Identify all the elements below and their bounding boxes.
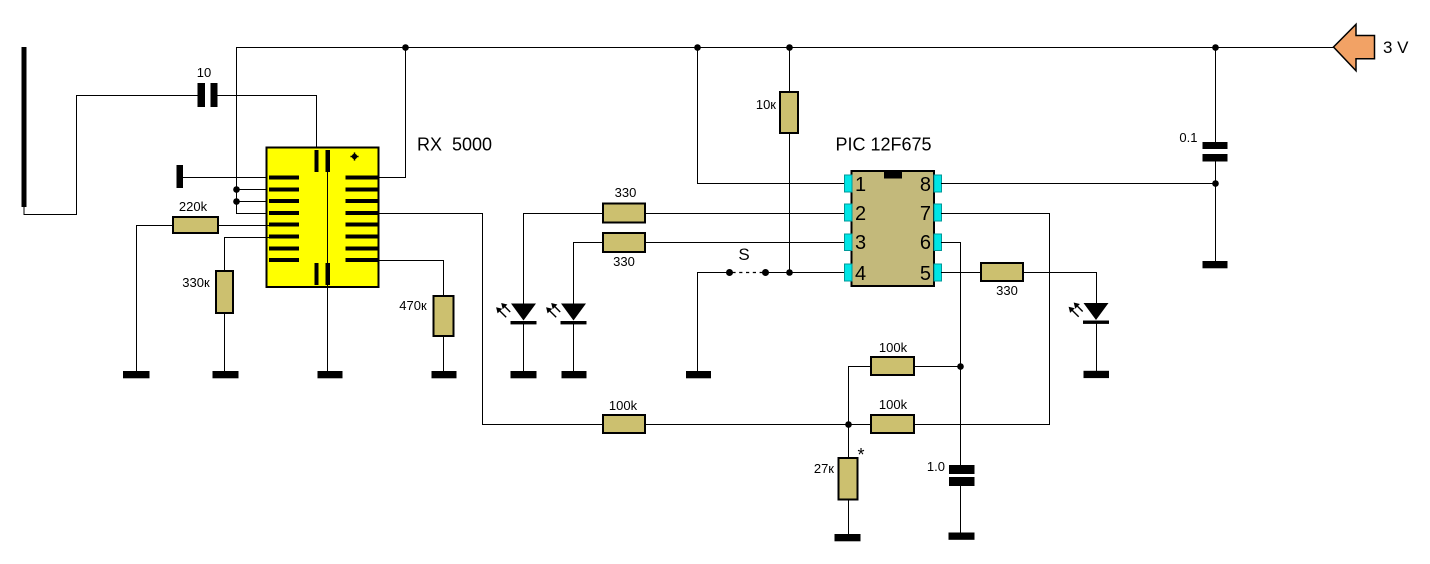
junction [402, 44, 409, 51]
label asterisk [858, 445, 865, 465]
wire 330 third to LED3 [1023, 273, 1097, 304]
wire C3 to ground [960, 486, 962, 533]
svg-text:0.1: 0.1 [1179, 130, 1197, 145]
resistor 330 first [603, 204, 645, 223]
resistor 330k [216, 271, 233, 313]
label 100k [879, 397, 908, 412]
svg-text:6: 6 [920, 232, 931, 254]
PIC notch [884, 171, 902, 179]
stub electrode [177, 165, 184, 188]
LED D1 [496, 303, 536, 324]
PIC pin 2 [845, 203, 867, 225]
svg-text:4: 4 [855, 263, 866, 285]
svg-text:220k: 220k [179, 199, 208, 214]
PIC pin 1 [845, 174, 867, 196]
ground [686, 371, 711, 378]
label 330 [615, 185, 637, 200]
junction [786, 269, 793, 276]
label PIC 12F675 [836, 135, 932, 155]
junction [1212, 180, 1219, 187]
svg-text:*: * [858, 445, 865, 465]
PIC pin 5 [920, 263, 942, 285]
label 10k [756, 97, 776, 112]
PIC pin 4 [845, 263, 867, 285]
label 100k [879, 340, 908, 355]
IC U2 PIC 12F675 body [852, 171, 935, 286]
wire 100k to junction [645, 424, 871, 426]
PIC pin 3 [845, 232, 867, 254]
resistor 100k lower [871, 415, 914, 433]
junction [845, 421, 852, 428]
wire PIC pin 7 loop [914, 214, 1050, 425]
wire 10k to PIC pin 4 [790, 133, 845, 273]
RX internal bottom bars [315, 263, 331, 285]
label RX 5000 [417, 135, 492, 155]
wire LED1 to ground [523, 324, 525, 371]
resistor 470k [434, 296, 454, 336]
label 0.1 [1179, 130, 1197, 145]
ground [835, 534, 861, 541]
junction [694, 44, 701, 51]
wire S to ground [698, 273, 730, 372]
ground [318, 371, 343, 378]
wire LED2 to ground [573, 324, 575, 371]
wire 330k top to RX pin 6 [225, 238, 270, 272]
wire 330k to ground [224, 313, 226, 371]
svg-text:S: S [738, 245, 749, 264]
resistor 10k [780, 92, 798, 133]
wire junction to 27k [848, 425, 850, 459]
wire 220k left to ground [137, 226, 174, 372]
wire 220k right to RX pin 5 [218, 225, 269, 227]
svg-text:5: 5 [920, 263, 931, 285]
wire rail to 10k [789, 48, 791, 93]
label 27k [814, 461, 834, 476]
svg-text:330: 330 [615, 185, 637, 200]
RX internal link wire [327, 172, 329, 263]
svg-text:10: 10 [197, 65, 211, 80]
junction [233, 186, 240, 193]
wire stub to RX pin 1 [183, 177, 269, 179]
wire C1 to RX top [218, 96, 317, 149]
LED D3 [1069, 303, 1109, 324]
svg-text:330: 330 [613, 254, 635, 269]
resistor 27k [839, 458, 858, 500]
wire 100k upper left [849, 367, 872, 425]
resistor 100k mid [603, 415, 645, 433]
svg-text:10к: 10к [756, 97, 776, 112]
ground [1203, 261, 1228, 268]
label 330k [182, 275, 210, 290]
junction [233, 198, 240, 205]
capacitor C2 [1203, 142, 1228, 162]
wire LED3 to ground [1096, 324, 1098, 371]
wire 27k to ground [848, 500, 850, 535]
svg-text:2: 2 [855, 203, 866, 225]
PIC pin 7 [920, 203, 942, 225]
PIC pin 6 [920, 232, 942, 254]
ground [123, 371, 150, 378]
LED D2 [546, 303, 586, 324]
svg-text:3 V: 3 V [1383, 38, 1409, 57]
wire antenna to C1 [24, 96, 197, 215]
label 470k [399, 298, 427, 313]
wire RX pin 1R to rail [378, 48, 406, 178]
ground [511, 371, 537, 378]
wire LED1 branch [524, 214, 604, 304]
resistor 220k [173, 217, 218, 233]
label 100k [609, 398, 638, 413]
svg-text:7: 7 [920, 203, 931, 225]
wire rail to C2 [1215, 48, 1217, 143]
wire 330 second to PIC pin 3 [645, 242, 845, 244]
ground [562, 371, 587, 378]
wire rail to PIC pin 1 [698, 48, 845, 184]
resistor 100k upper [871, 357, 914, 375]
svg-text:RX 5000: RX 5000 [417, 135, 492, 155]
label 330 [613, 254, 635, 269]
power rail 3V [237, 47, 1335, 49]
RX left pin bars [269, 176, 299, 263]
svg-text:PIC 12F675: PIC 12F675 [836, 135, 932, 155]
wire RX pin 8R to 470k [378, 261, 444, 297]
ground [213, 371, 239, 378]
svg-text:100k: 100k [879, 340, 908, 355]
wire to RX pin 2 [237, 189, 270, 191]
wire PIC pin 5 to 330 [942, 272, 982, 274]
svg-text:1.0: 1.0 [927, 459, 945, 474]
svg-text:100k: 100k [609, 398, 638, 413]
wire RX bottom to ground [327, 285, 329, 371]
ground [949, 533, 975, 540]
wire C2 to pin 8 net and ground [1215, 162, 1217, 262]
label S [738, 245, 749, 264]
RX orientation star [351, 153, 358, 160]
switch S [726, 269, 790, 276]
label 220k [179, 199, 208, 214]
label 1.0 [927, 459, 945, 474]
wire to RX pin 3 [237, 201, 270, 203]
svg-text:100k: 100k [879, 397, 908, 412]
wire 330 first to PIC pin 2 [645, 213, 845, 215]
ground [432, 371, 457, 378]
svg-text:330к: 330к [182, 275, 210, 290]
resistor 330 second [603, 233, 645, 252]
ground [1084, 371, 1110, 378]
svg-text:470к: 470к [399, 298, 427, 313]
svg-text:3: 3 [855, 232, 866, 254]
capacitor C3 [949, 465, 975, 486]
label 330 [996, 283, 1018, 298]
antenna [22, 47, 27, 207]
svg-text:27к: 27к [814, 461, 834, 476]
wire RX pin 4R to 100k row [378, 214, 603, 425]
wire LED2 branch [574, 243, 604, 304]
wire 470k to ground [443, 336, 445, 371]
IC U1 RX 5000 body [267, 148, 379, 288]
label 3 V [1383, 38, 1409, 57]
svg-text:8: 8 [920, 174, 931, 196]
resistor 330 third [981, 263, 1023, 281]
wire PIC pin 6 to C3 [942, 243, 961, 466]
svg-text:1: 1 [855, 174, 866, 196]
wire PIC pin 8 to C2 [942, 183, 1216, 185]
PIC pin 8 [920, 174, 942, 196]
wire rail drop to RX pin 4 [237, 48, 270, 214]
svg-text:330: 330 [996, 283, 1018, 298]
label C1 value 10 [197, 65, 211, 80]
wire 100k upper right [914, 366, 961, 368]
junction [957, 363, 964, 370]
RX right pin bars [346, 176, 378, 263]
capacitor C1 [198, 83, 218, 107]
power arrow 3V [1334, 24, 1375, 71]
junction [786, 44, 793, 51]
junction [1212, 44, 1219, 51]
RX internal top bars [315, 150, 331, 172]
